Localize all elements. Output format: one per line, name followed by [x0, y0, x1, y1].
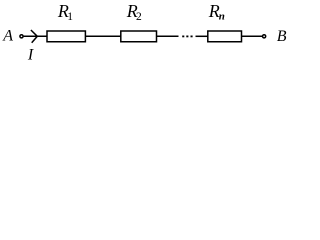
- svg-text:B: B: [277, 28, 287, 45]
- svg-text:1: 1: [67, 11, 73, 23]
- svg-text:I: I: [27, 46, 34, 63]
- svg-text:A: A: [2, 28, 13, 45]
- svg-text:2: 2: [136, 11, 142, 23]
- svg-text:n: n: [219, 11, 225, 23]
